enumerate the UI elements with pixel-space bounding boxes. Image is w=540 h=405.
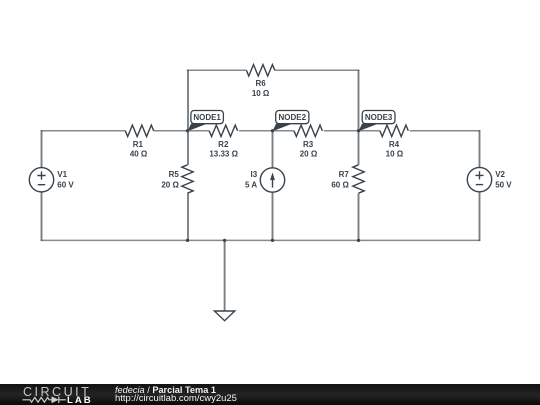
svg-text:5 A: 5 A <box>245 180 257 189</box>
footer title: fedecia / Parcial Tema 1 <box>115 385 216 395</box>
svg-text:R1: R1 <box>133 140 144 149</box>
svg-text:I3: I3 <box>251 170 258 179</box>
svg-text:10 Ω: 10 Ω <box>252 89 270 98</box>
wire R6 loop down to NODE3 <box>358 70 360 131</box>
wire I3 bottom to bottom rail <box>272 192 274 240</box>
resistor R6 <box>246 65 274 76</box>
wire V1 bottom to bottom rail <box>41 192 43 241</box>
svg-text:V2: V2 <box>495 170 505 179</box>
svg-text:50 V: 50 V <box>495 180 512 189</box>
node NODE2 callout <box>273 111 309 132</box>
svg-text:20 Ω: 20 Ω <box>300 150 318 159</box>
junction dot R5 bottom <box>186 239 189 242</box>
svg-text:R4: R4 <box>389 140 400 149</box>
svg-text:NODE2: NODE2 <box>279 113 307 122</box>
junction dot R7 bottom <box>357 239 360 242</box>
current source I3 <box>260 168 284 192</box>
junction dot NODE2 <box>271 129 274 132</box>
svg-text:60 V: 60 V <box>57 180 74 189</box>
resistor R1 <box>125 125 153 136</box>
CircuitLab logo wordmark CIRCUIT <box>23 385 91 399</box>
svg-text:13.33 Ω: 13.33 Ω <box>209 150 238 159</box>
wire R3 right to R4 left through NODE3 <box>324 130 380 132</box>
resistor R5 <box>182 165 193 193</box>
wire top-left to R1 left <box>41 130 126 132</box>
svg-text:NODE3: NODE3 <box>365 113 393 122</box>
svg-text:R2: R2 <box>218 140 229 149</box>
wire bottom rail <box>41 239 480 241</box>
wire R4 right to top-right corner <box>410 130 481 132</box>
svg-text:40 Ω: 40 Ω <box>130 150 148 159</box>
wire NODE1 to R5 top <box>187 131 189 165</box>
svg-text:60 Ω: 60 Ω <box>331 180 349 189</box>
svg-text:R6: R6 <box>255 79 266 88</box>
svg-text:10 Ω: 10 Ω <box>386 150 404 159</box>
wire R5 bottom to bottom rail <box>187 193 189 240</box>
ground <box>214 240 234 320</box>
footer bar <box>0 384 540 405</box>
wire NODE2 to I3 top <box>272 131 274 168</box>
wire R2 right to R3 left through NODE2 <box>239 130 294 132</box>
resistor R4 <box>380 125 408 136</box>
svg-text:R3: R3 <box>303 140 314 149</box>
node NODE1 callout <box>188 111 224 132</box>
junction dot ground <box>223 239 226 242</box>
wire R6 loop top left <box>187 69 247 71</box>
voltage source V2 <box>467 167 491 191</box>
wire V2 top riser <box>479 130 481 168</box>
svg-text:20 Ω: 20 Ω <box>161 180 179 189</box>
wire R6 loop top right <box>275 69 359 71</box>
junction dot NODE3 <box>357 129 360 132</box>
logo LAB <box>67 395 93 405</box>
svg-text:R5: R5 <box>169 170 180 179</box>
junction dot NODE1 <box>186 129 189 132</box>
wire R7 bottom to bottom rail <box>358 193 360 240</box>
resistor R7 <box>353 165 364 193</box>
wire V2 bottom to bottom rail <box>479 192 481 241</box>
wire R1 right to R2 left through NODE1 <box>154 130 210 132</box>
wire V1 top riser <box>41 130 43 168</box>
footer url <box>115 393 237 404</box>
wire NODE3 to R7 top <box>358 131 360 165</box>
node NODE3 callout <box>359 111 396 132</box>
wire NODE1 up to R6 loop <box>187 70 189 131</box>
junction dot I3 bottom <box>271 239 274 242</box>
svg-text:V1: V1 <box>57 170 67 179</box>
resistor R3 <box>294 125 322 136</box>
voltage source V1 <box>29 168 53 192</box>
svg-text:NODE1: NODE1 <box>193 113 221 122</box>
resistor R2 <box>209 125 237 136</box>
svg-text:R7: R7 <box>339 170 350 179</box>
logo resistor-diode glyph <box>22 394 92 405</box>
